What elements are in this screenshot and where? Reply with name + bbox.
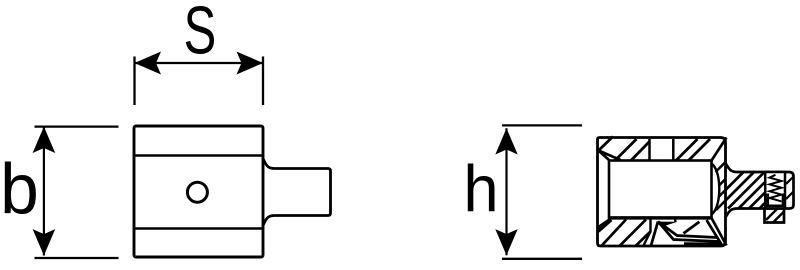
- section tang with detent (outline): [726, 163, 794, 223]
- extension line top of b: [35, 125, 119, 127]
- corner wedge top-left: [599, 149, 608, 158]
- pin hole circle: [187, 182, 207, 202]
- top wall hatch: [599, 137, 711, 161]
- spring bore: [765, 172, 785, 209]
- svg-text:h: h: [463, 151, 498, 225]
- slot vertical right: [672, 139, 675, 161]
- detent block hatch: [766, 209, 784, 223]
- corner wedge bottom-left: [599, 220, 610, 231]
- upper edge line: [134, 154, 263, 157]
- body rectangle (left view): [134, 126, 263, 257]
- detent plunger: [766, 205, 785, 208]
- pin slot bottom vertical: [644, 219, 676, 246]
- right wall hatch: [716, 162, 726, 210]
- chamfer diagonal bottom-left: [599, 220, 612, 232]
- arrowhead S left: [135, 52, 162, 75]
- arrowhead h top: [495, 128, 517, 154]
- arrowhead b bottom: [33, 229, 56, 255]
- arrowhead h bottom: [495, 229, 517, 255]
- dimension line h: [505, 128, 507, 255]
- bottom wall hatch: [602, 220, 651, 246]
- tang bottom edge across detent: [765, 207, 785, 210]
- extension line bottom of h: [502, 258, 582, 260]
- bore right hatch: [786, 177, 794, 200]
- svg-text:b: b: [0, 149, 39, 229]
- lower edge line: [134, 227, 263, 230]
- outer body rectangle (section): [598, 138, 726, 247]
- chamfer diagonal top-left: [599, 151, 621, 161]
- extension line top of h: [502, 124, 582, 126]
- svg-text:S: S: [184, 0, 217, 69]
- plunger side bar left: [766, 194, 770, 206]
- arrowhead b top: [33, 127, 56, 153]
- extension line right of S: [262, 57, 264, 106]
- cavity end arc: [712, 164, 720, 215]
- plunger side bar right: [782, 194, 786, 206]
- fan wedge under cavity edge: [658, 222, 678, 226]
- tang neck hatch: [726, 172, 765, 209]
- spring zigzag: [770, 175, 782, 202]
- extension line left of S: [133, 57, 135, 106]
- chamfer diagonal top-right: [712, 138, 727, 161]
- square drive tang (left view): [263, 159, 331, 226]
- top slot white: [651, 141, 672, 159]
- leaf spring fan: [651, 222, 721, 246]
- chamfer diagonal bottom-right: [707, 218, 727, 246]
- extension line bottom of b: [35, 257, 119, 259]
- cavity bottom thick edge: [609, 216, 712, 219]
- dimension line S: [135, 62, 264, 64]
- slot vertical left: [648, 139, 651, 161]
- cavity rectangle: [609, 161, 712, 218]
- arrowhead S right: [237, 52, 264, 75]
- dimension line b: [43, 127, 45, 256]
